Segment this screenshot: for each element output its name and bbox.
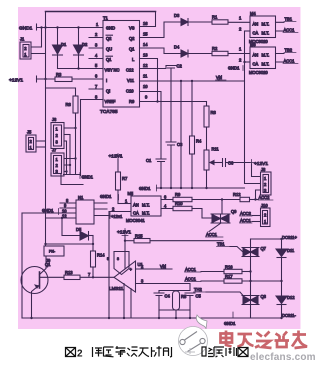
svg-text:DC311-: DC311- bbox=[282, 313, 296, 318]
svg-text:8: 8 bbox=[117, 257, 119, 261]
resistor R12 bbox=[233, 192, 250, 202]
wire M5 pin1 hook bbox=[118, 203, 131, 205]
node ACC1 to J10 bbox=[240, 218, 261, 223]
wire R12 to ACC2 bbox=[250, 199, 259, 201]
wire J6 pin1 bbox=[64, 127, 76, 129]
junction dots GND row bbox=[160, 187, 208, 189]
wire J1 pin1 to +12V rail bbox=[31, 53, 46, 55]
svg-text:ACC1: ACC1 bbox=[185, 277, 197, 282]
resistor R8 bbox=[204, 102, 216, 151]
svg-text:ACC1: ACC1 bbox=[240, 218, 252, 223]
node +12V1 comparator bbox=[117, 229, 131, 236]
node +12V1 right bbox=[249, 160, 269, 168]
TCA785 left pins 7,8 stubs bbox=[81, 89, 104, 100]
svg-text:GND1: GND1 bbox=[82, 175, 94, 180]
wire GND1 row y=27 bbox=[37, 27, 104, 29]
junction dots pin11 row bbox=[180, 80, 193, 82]
wire bus verticals bbox=[67, 128, 76, 175]
svg-text:R14: R14 bbox=[97, 253, 105, 258]
node Vjd top bbox=[216, 75, 227, 80]
svg-text:D4: D4 bbox=[174, 45, 180, 50]
connector J8 bbox=[261, 167, 272, 195]
node ACC1 to R16 bbox=[185, 267, 225, 272]
resistor R6 bbox=[66, 88, 79, 128]
capacitor C4 bbox=[154, 291, 170, 311]
wire J1 pin2 to GND1 bbox=[31, 28, 42, 48]
resistor R9 bbox=[173, 192, 192, 202]
svg-text:R6: R6 bbox=[66, 102, 72, 107]
svg-text:TB1: TB1 bbox=[285, 17, 293, 22]
resistor R5 bbox=[173, 291, 187, 319]
svg-text:2: 2 bbox=[77, 349, 83, 360]
wire row y=244 bbox=[46, 243, 94, 245]
optocoupler M5 MOC3041 bbox=[126, 191, 161, 223]
connector J10 bbox=[261, 203, 271, 227]
optocoupler M4 MOC3020 bbox=[239, 11, 276, 44]
svg-text:MOC3041: MOC3041 bbox=[126, 218, 145, 223]
wire R11 wiper to C6 bbox=[215, 162, 223, 164]
svg-text:D3: D3 bbox=[174, 13, 180, 18]
svg-text:D12: D12 bbox=[287, 295, 295, 300]
wire M4 pin2 stub bbox=[245, 30, 251, 32]
svg-text:M.T.: M.T. bbox=[142, 203, 150, 208]
svg-text:C12: C12 bbox=[126, 68, 134, 73]
wire C6 to +12V stub bbox=[226, 162, 251, 164]
svg-text:C10: C10 bbox=[126, 89, 134, 94]
svg-text:D2: D2 bbox=[82, 42, 88, 47]
svg-text:Q1: Q1 bbox=[129, 47, 135, 52]
svg-text:AN: AN bbox=[253, 53, 259, 58]
svg-text:R9: R9 bbox=[175, 192, 181, 197]
svg-text:M.T.: M.T. bbox=[262, 53, 270, 58]
connector J6 bbox=[51, 117, 64, 149]
wire pin3 row bbox=[136, 279, 191, 291]
wire triac MT2 up bbox=[221, 200, 223, 215]
wire +12V row y=79 bbox=[37, 78, 56, 80]
wire DC311+ rail bbox=[251, 238, 282, 240]
wire sync row y=68.5 to pin5 bbox=[58, 68, 104, 70]
svg-text:J8: J8 bbox=[261, 167, 266, 172]
wire pin14 Q1 down to D4 row bbox=[140, 48, 182, 54]
wire D4 to R2 bbox=[188, 53, 212, 55]
svg-text:C4: C4 bbox=[165, 294, 171, 299]
svg-text:TH2: TH2 bbox=[194, 287, 202, 292]
wire M5 right pins bbox=[161, 195, 173, 209]
wire pin2 row to Vjd bbox=[136, 264, 173, 269]
capacitor C2 bbox=[166, 64, 182, 143]
svg-text:I: I bbox=[106, 78, 107, 83]
junction dots bottom rail bbox=[30, 317, 191, 319]
wire M4 outputs bbox=[276, 22, 285, 31]
svg-text:TCA785: TCA785 bbox=[100, 109, 118, 115]
comparator flag bbox=[107, 252, 129, 275]
svg-text:Q8: Q8 bbox=[261, 294, 267, 299]
resistor R7 bbox=[116, 160, 128, 204]
svg-text:D5: D5 bbox=[76, 227, 82, 232]
resistor R13 bbox=[64, 270, 80, 280]
wire triac MT1 down-left bbox=[209, 223, 221, 232]
svg-text:13: 13 bbox=[143, 53, 148, 58]
svg-text:GND1: GND1 bbox=[100, 194, 112, 199]
wire bottom rail y=318 bbox=[22, 317, 282, 319]
svg-text:GND1: GND1 bbox=[42, 208, 54, 213]
resistor R15 bbox=[134, 234, 150, 243]
wire R13 to comparator output bbox=[80, 276, 114, 278]
capacitor C3 bbox=[166, 142, 183, 188]
svg-text:T1: T1 bbox=[103, 16, 109, 21]
svg-text:Q1: Q1 bbox=[45, 262, 51, 267]
transistor Q1 bbox=[21, 256, 64, 318]
wire J8 pin3 hook to R12 row bbox=[256, 190, 261, 200]
capacitor C1 bbox=[146, 158, 166, 188]
svg-text:ACC1: ACC1 bbox=[206, 232, 218, 237]
svg-text:R7: R7 bbox=[122, 176, 128, 181]
svg-text:GND1: GND1 bbox=[228, 66, 240, 71]
junction dots row244 bbox=[44, 243, 94, 245]
node ACC1 to R17 bbox=[185, 277, 225, 282]
resistor R3 bbox=[55, 72, 72, 82]
svg-text:AN: AN bbox=[133, 203, 139, 208]
junction dot D2 bottom bbox=[77, 67, 79, 69]
connector J1 bbox=[20, 37, 31, 60]
wire drop to D5 row bbox=[61, 218, 63, 236]
svg-text:D11: D11 bbox=[287, 248, 295, 253]
svg-text:ACC1: ACC1 bbox=[284, 28, 296, 33]
node GND1 bottom bbox=[224, 312, 236, 326]
node +12V1 left bbox=[9, 76, 37, 84]
TCA785 left pin stubs 2,3,4 bbox=[89, 22, 103, 100]
svg-text:Q2: Q2 bbox=[129, 36, 135, 41]
diode D12 bbox=[276, 295, 295, 318]
svg-text:R2: R2 bbox=[212, 46, 218, 51]
node GND1 mid bbox=[139, 185, 157, 191]
svg-text:C2: C2 bbox=[177, 64, 183, 69]
svg-text:Q9: Q9 bbox=[231, 209, 237, 214]
wire J6 pin3 bbox=[64, 140, 67, 142]
wire to R15 bbox=[125, 240, 134, 242]
junction dots GND1 row bbox=[40, 26, 79, 28]
resistor R10 bbox=[173, 201, 192, 211]
watermark red text 电子发烧友 bbox=[221, 331, 308, 349]
svg-text:PN-: PN- bbox=[49, 250, 56, 254]
connector J7 bbox=[51, 148, 64, 177]
node GND1 above M5 bbox=[100, 194, 119, 200]
junction dots R17 row bbox=[249, 280, 282, 282]
svg-text:ACC2: ACC2 bbox=[259, 195, 271, 200]
wire R3 to pin6 bbox=[72, 78, 103, 80]
svg-text:NC: NC bbox=[114, 68, 120, 73]
svg-text:R4: R4 bbox=[196, 139, 202, 144]
svg-text:Q7: Q7 bbox=[261, 246, 267, 251]
potentiometer R11 bbox=[204, 147, 219, 189]
junction dot +12V/R15 bbox=[124, 240, 126, 242]
svg-text:J7: J7 bbox=[52, 148, 57, 153]
node ACC1 (M6) bbox=[283, 59, 298, 64]
diode D2 bbox=[74, 28, 88, 69]
wire pin15 Q2 up to D3 row bbox=[140, 22, 182, 38]
node DC311+ bbox=[280, 235, 297, 240]
IC T1 TCA785 bbox=[100, 16, 140, 116]
N1 left pin stubs bbox=[60, 198, 76, 219]
wire pin9 row to R8 bbox=[140, 101, 207, 103]
wire +12V drop / V+ leg bbox=[124, 236, 126, 269]
wire pin13 L down bbox=[140, 59, 158, 102]
svg-text:D1: D1 bbox=[61, 42, 67, 47]
triac Q8 bbox=[242, 294, 267, 318]
caption 图2 bbox=[66, 348, 76, 357]
wire M6 outputs bbox=[276, 54, 285, 63]
svg-text:R10: R10 bbox=[175, 201, 183, 206]
node DC311- bbox=[280, 313, 296, 319]
junction dot J8 pin3 hook bbox=[254, 198, 256, 200]
node TH2 gate bbox=[194, 287, 247, 300]
connector J9 bbox=[44, 246, 64, 263]
schematic pink background bbox=[18, 7, 301, 329]
IC N1 bbox=[76, 195, 94, 224]
svg-text:QU: QU bbox=[106, 47, 112, 52]
junction dot R14 bottom bbox=[92, 276, 94, 278]
svg-text:M5: M5 bbox=[128, 191, 134, 196]
svg-text:5: 5 bbox=[107, 257, 109, 261]
diode D4 bbox=[174, 45, 188, 58]
capacitor C6 bbox=[223, 159, 234, 167]
junction dot +12V at x=45.5 bbox=[44, 78, 46, 80]
wire N1 bottom row y=218 bbox=[46, 217, 77, 219]
wire GND row y=188 bbox=[157, 187, 245, 189]
svg-text:VSY: VSY bbox=[105, 68, 113, 73]
svg-text:R9: R9 bbox=[129, 99, 135, 104]
svg-text:J10: J10 bbox=[261, 203, 268, 208]
wire pin10 C10 to C1 bbox=[140, 92, 162, 160]
resistor R17 bbox=[224, 274, 282, 283]
watermark grey char hints bbox=[185, 348, 220, 356]
node TB1 gate bbox=[217, 242, 244, 253]
svg-text:TB2: TB2 bbox=[285, 48, 293, 53]
svg-text:ACC1: ACC1 bbox=[185, 267, 197, 272]
svg-text:R5: R5 bbox=[181, 294, 187, 299]
diode D3 bbox=[174, 13, 188, 26]
caption 路原理图 bbox=[202, 347, 248, 357]
wire GND1 row y=213 to N1 bbox=[22, 212, 76, 214]
svg-text:VS: VS bbox=[129, 26, 135, 31]
resistor R2 bbox=[212, 46, 228, 56]
optocoupler M6 MOC3020 bbox=[239, 42, 276, 75]
wire cap bus y=290.5 bbox=[159, 290, 190, 292]
node TB2 bbox=[284, 48, 296, 53]
svg-text:R1: R1 bbox=[212, 15, 218, 20]
node ACC1 (M4) bbox=[283, 28, 298, 33]
svg-text:Q1: Q1 bbox=[106, 57, 112, 62]
svg-text:C1: C1 bbox=[146, 158, 152, 163]
junction dots bus bbox=[65, 127, 76, 173]
svg-text:CA: CA bbox=[133, 211, 139, 216]
diode D1 bbox=[53, 28, 67, 69]
wire J5 pin2 bbox=[36, 140, 46, 142]
node GND1 near M6 bbox=[228, 66, 243, 71]
svg-text:N1: N1 bbox=[78, 195, 84, 200]
wire +12V1 hook to J8 pin1 bbox=[252, 164, 261, 177]
svg-text:C5: C5 bbox=[196, 294, 202, 299]
svg-text:M4: M4 bbox=[250, 11, 256, 16]
svg-text:J6: J6 bbox=[52, 117, 57, 122]
node ACC2 to J10 bbox=[240, 211, 261, 216]
wire pin11 V11 row to right bus bbox=[140, 80, 245, 82]
wire pin12 C12 to C2 bbox=[140, 66, 167, 69]
node GND1 bus bottom bbox=[80, 173, 94, 180]
svg-text:M.T.: M.T. bbox=[262, 31, 270, 36]
connector J5 bbox=[26, 130, 36, 153]
svg-text:AN: AN bbox=[253, 22, 259, 27]
svg-text:V11: V11 bbox=[127, 78, 135, 83]
node ACC1 under triac bbox=[206, 232, 224, 237]
watermark logo swoosh bbox=[196, 315, 207, 329]
wire J7 pins to bus bbox=[64, 159, 76, 172]
svg-text:VREF: VREF bbox=[105, 99, 116, 104]
wire VREF drop x=80.5 bbox=[80, 100, 82, 176]
svg-text:GND1: GND1 bbox=[224, 321, 236, 326]
watermark logo circle bbox=[179, 315, 221, 356]
svg-text:R11: R11 bbox=[212, 147, 220, 152]
wire left vertical x=22 bbox=[21, 213, 23, 318]
wire bus collector row y=174.5 bbox=[64, 174, 81, 176]
wire box top y=88 bbox=[46, 87, 76, 89]
resistor R1 bbox=[212, 15, 228, 25]
M5 pin numbers bbox=[112, 199, 128, 212]
svg-text:LM311: LM311 bbox=[109, 286, 124, 292]
node ACC2 right bbox=[258, 195, 273, 200]
svg-text:TB1: TB1 bbox=[217, 242, 225, 247]
svg-text:C3: C3 bbox=[177, 142, 183, 147]
svg-text:Vjd: Vjd bbox=[160, 264, 167, 269]
triac Q9 bbox=[211, 209, 237, 223]
caption 低压整流及控制 bbox=[93, 346, 172, 357]
svg-text:M.T.: M.T. bbox=[262, 62, 270, 67]
svg-text:Vjd: Vjd bbox=[216, 75, 223, 80]
wire stub row y=184.5 bbox=[61, 175, 83, 185]
node TB1 bbox=[284, 17, 296, 22]
svg-text:Q2: Q2 bbox=[106, 36, 112, 41]
resistor R14 bbox=[91, 251, 106, 277]
wire D5 left bbox=[62, 235, 80, 237]
svg-text:R13: R13 bbox=[65, 270, 73, 275]
resistor R16 bbox=[224, 265, 251, 274]
svg-text:GND1: GND1 bbox=[139, 186, 151, 191]
svg-text:R8: R8 bbox=[211, 110, 217, 115]
diode D5 bbox=[76, 227, 89, 240]
wire drops to bottom rail bbox=[159, 310, 190, 318]
wire pin16 VS to top rail bbox=[140, 12, 156, 27]
junction dot M6 pin2 bbox=[243, 61, 245, 63]
svg-text:R15: R15 bbox=[135, 234, 143, 239]
comparator ground legs bbox=[124, 284, 131, 319]
svg-text:R16: R16 bbox=[225, 265, 233, 270]
svg-text:elecfans.com: elecfans.com bbox=[250, 352, 316, 363]
diode D11 bbox=[276, 239, 295, 296]
node +12V1 above R7 bbox=[109, 154, 123, 160]
wire x=93 drop to R14 bbox=[92, 236, 94, 252]
junction dot R16/Q column bbox=[249, 270, 251, 272]
junction dot pin13/pin9 bbox=[156, 100, 158, 102]
wire D5 right bbox=[89, 235, 94, 237]
svg-text:M.T.: M.T. bbox=[142, 211, 150, 216]
wire R2 to M6 pin1 bbox=[228, 53, 250, 55]
resistor R4 bbox=[190, 81, 202, 188]
N1 right pin stubs bbox=[94, 203, 110, 216]
wire M4/M6 cathode bus x=244.5 down to J8 bbox=[245, 31, 261, 184]
wire cap ground bus y=310 bbox=[159, 309, 190, 311]
wire R9 to R12 row bbox=[192, 199, 240, 201]
junction dot triac MT2 branch bbox=[221, 198, 223, 200]
op-amp U1 LM311 bbox=[109, 261, 143, 292]
wire D3 to R1 bbox=[188, 21, 212, 23]
capacitor C5 bbox=[185, 293, 201, 310]
node GND1 top bbox=[19, 24, 37, 32]
svg-text:CA: CA bbox=[253, 62, 259, 67]
svg-text:GND1: GND1 bbox=[19, 26, 33, 32]
wire J5 pin1 bbox=[36, 146, 46, 148]
svg-text:CA: CA bbox=[253, 31, 259, 36]
wire R10 to triac gate bbox=[192, 209, 211, 219]
wire M5 pin2 hook down to ground bbox=[109, 212, 131, 319]
node GND1 left row bbox=[42, 208, 59, 215]
svg-text:DC311+: DC311+ bbox=[282, 235, 297, 240]
svg-text:M.T.: M.T. bbox=[262, 22, 270, 27]
wire R1 to M4 pin1 bbox=[228, 21, 250, 23]
svg-text:16: 16 bbox=[143, 21, 148, 26]
svg-text:MOC3020: MOC3020 bbox=[249, 70, 268, 75]
svg-text:ACC1: ACC1 bbox=[284, 59, 296, 64]
svg-text:+12V1: +12V1 bbox=[117, 230, 131, 236]
node Vjd bottom bbox=[160, 264, 172, 269]
wire M6 pin2 stub bbox=[245, 61, 251, 63]
watermark logo dumbbell bbox=[180, 332, 205, 352]
wire R15 row to right bbox=[150, 240, 223, 242]
svg-text:R17: R17 bbox=[225, 274, 233, 279]
svg-text:+12v1: +12v1 bbox=[111, 214, 123, 219]
wire vertical x=45.5 supply/J5 bus bbox=[45, 12, 47, 247]
wire drop x=181 bbox=[180, 81, 182, 188]
svg-text:GND: GND bbox=[106, 26, 115, 31]
svg-text:ACC2: ACC2 bbox=[240, 211, 252, 216]
svg-text:15: 15 bbox=[143, 32, 148, 37]
wire top supply y=11 bbox=[46, 11, 156, 13]
svg-text:+12V1: +12V1 bbox=[9, 78, 23, 84]
svg-text:11: 11 bbox=[143, 74, 148, 79]
svg-text:J5: J5 bbox=[27, 130, 32, 135]
svg-text:J1: J1 bbox=[20, 37, 25, 42]
triac Q7 bbox=[242, 239, 267, 296]
svg-text:QI: QI bbox=[106, 89, 110, 94]
svg-text:M6: M6 bbox=[250, 42, 256, 47]
svg-text:R3: R3 bbox=[56, 72, 62, 77]
TCA785 right pin numbers bbox=[143, 21, 148, 100]
node +12v1 right of N1 bbox=[110, 213, 123, 220]
junction dot x=62 bbox=[61, 217, 63, 219]
svg-text:12: 12 bbox=[143, 63, 148, 68]
svg-text:14: 14 bbox=[143, 42, 148, 47]
svg-text:R12: R12 bbox=[233, 192, 241, 197]
wire J6 pin2 bbox=[64, 134, 70, 136]
svg-text:10: 10 bbox=[143, 84, 148, 89]
